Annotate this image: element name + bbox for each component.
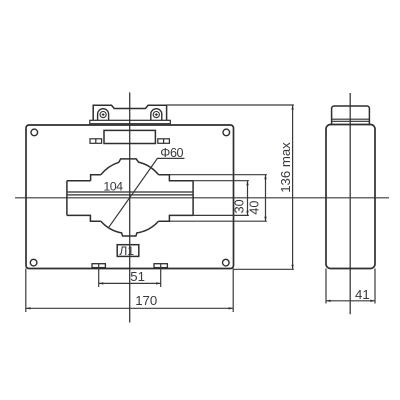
node mounting tab left — [92, 264, 105, 268]
node arrowheads 41 — [326, 300, 331, 302]
node screw arch left — [98, 109, 109, 121]
node mounting tab right — [154, 264, 167, 268]
wire dimension line 40 — [265, 175, 267, 222]
node screw arch right — [151, 109, 162, 121]
node terminal bracket top — [93, 105, 166, 120]
node hole top-left — [31, 129, 38, 136]
wire dimension line 30 — [247, 181, 249, 216]
node body front view — [26, 125, 234, 269]
wire extension 40 bottom — [169, 220, 267, 222]
svg-text:40: 40 — [248, 201, 262, 215]
svg-text:136 max: 136 max — [278, 142, 293, 193]
node hole bottom-right — [223, 259, 230, 266]
node connector right — [158, 139, 170, 144]
svg-text:51: 51 — [130, 269, 145, 284]
node screw circle right — [153, 112, 159, 118]
wire extension 41 right — [374, 269, 376, 304]
wire horizontal centerline — [15, 197, 389, 199]
node tongue top-left — [67, 180, 91, 182]
node nameplate window — [104, 130, 155, 143]
node hole bottom-left — [30, 259, 37, 266]
node tongue right edge — [192, 181, 194, 216]
svg-text:170: 170 — [135, 293, 157, 308]
svg-text:104: 104 — [103, 179, 123, 193]
node connector left — [90, 139, 102, 144]
wire extension 136max bottom — [234, 268, 294, 270]
wire extension 40 top — [169, 174, 267, 176]
node arrowheads 170 — [26, 307, 31, 309]
node bracket base plate — [90, 120, 171, 123]
wire extension 136max top — [167, 104, 294, 106]
svg-text:30: 30 — [233, 199, 247, 213]
node boss step top-right — [159, 175, 194, 181]
wire extension 170 left — [25, 269, 27, 313]
node label box L1 — [117, 245, 139, 257]
wire vertical centerline front view — [129, 92, 131, 322]
wire extension 51 left — [98, 263, 100, 287]
wire dimension line 170 — [26, 307, 233, 309]
svg-text:41: 41 — [355, 287, 370, 302]
wire dimension line 136max — [292, 105, 294, 269]
wire vertical centerline side view — [349, 93, 351, 314]
wire extension 41 left — [325, 269, 327, 304]
node busbar slit lines — [67, 192, 193, 195]
node arrowheads 40 — [264, 175, 266, 180]
wire extension 170 right — [232, 269, 234, 313]
node boss step top-left — [91, 175, 101, 181]
svg-text:Л1: Л1 — [119, 244, 134, 258]
node screw circle left — [100, 112, 106, 118]
node arrowheads 136max — [291, 105, 293, 110]
node arrowheads 51 — [99, 282, 104, 284]
wire dimension line 41 — [326, 300, 375, 302]
node tongue left edge — [66, 181, 68, 216]
node hole top-right — [223, 129, 230, 136]
node boss step bottom-right — [159, 215, 194, 221]
node side view cap — [332, 106, 370, 125]
wire diameter leader F60 — [109, 158, 185, 227]
node tongue bottom-left — [67, 215, 101, 221]
wire extension 30 top — [193, 180, 249, 182]
node arrowheads 30 — [246, 181, 248, 186]
node side view body — [326, 125, 375, 269]
wire extension 51 right — [160, 263, 162, 287]
node boss outline with round window — [101, 159, 159, 175]
wire extension 30 bottom — [193, 214, 249, 216]
svg-text:Φ60: Φ60 — [160, 146, 183, 160]
wire dimension line 51 — [99, 282, 161, 284]
